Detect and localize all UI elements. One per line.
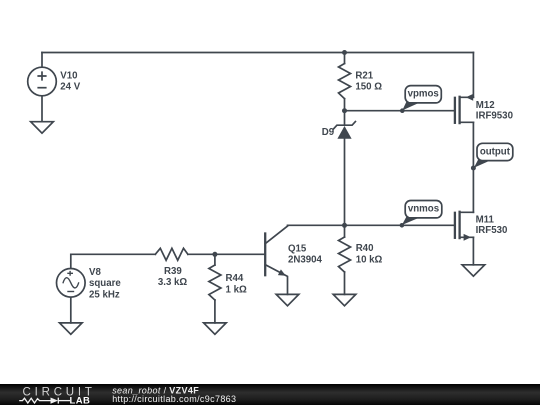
svg-text:IRF9530: IRF9530 bbox=[476, 111, 513, 122]
svg-text:24 V: 24 V bbox=[60, 82, 80, 93]
svg-text:R39: R39 bbox=[164, 266, 182, 277]
svg-text:D9: D9 bbox=[322, 127, 335, 138]
svg-text:R40: R40 bbox=[356, 243, 374, 254]
svg-text:vnmos: vnmos bbox=[408, 203, 439, 214]
svg-text:vpmos: vpmos bbox=[408, 89, 439, 100]
svg-text:V10: V10 bbox=[60, 70, 77, 81]
svg-text:square: square bbox=[89, 278, 121, 289]
svg-text:V8: V8 bbox=[89, 267, 101, 278]
svg-text:R21: R21 bbox=[355, 70, 373, 81]
svg-text:M11: M11 bbox=[476, 214, 495, 225]
svg-text:2N3904: 2N3904 bbox=[288, 254, 323, 265]
svg-text:R44: R44 bbox=[226, 273, 244, 284]
svg-text:http://circuitlab.com/c9c7863: http://circuitlab.com/c9c7863 bbox=[112, 394, 236, 404]
svg-text:1 kΩ: 1 kΩ bbox=[226, 284, 247, 295]
svg-text:output: output bbox=[480, 146, 511, 157]
svg-text:25 kHz: 25 kHz bbox=[89, 290, 120, 301]
svg-text:150 Ω: 150 Ω bbox=[355, 82, 382, 93]
svg-text:LAB: LAB bbox=[70, 395, 91, 405]
svg-text:IRF530: IRF530 bbox=[476, 225, 508, 236]
svg-text:10 kΩ: 10 kΩ bbox=[356, 255, 383, 266]
svg-text:Q15: Q15 bbox=[288, 243, 307, 254]
svg-text:3.3 kΩ: 3.3 kΩ bbox=[158, 277, 188, 288]
